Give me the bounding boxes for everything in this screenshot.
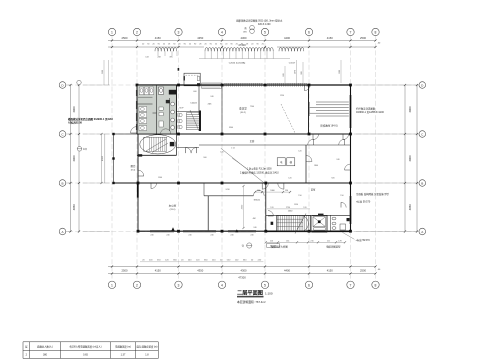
svg-text:4850: 4850 xyxy=(72,204,76,210)
right note 2 xyxy=(356,192,389,203)
svg-text:2500: 2500 xyxy=(122,268,128,272)
svg-text:150: 150 xyxy=(298,195,301,197)
svg-text:(28.0): (28.0) xyxy=(170,209,176,211)
svg-text:20: 20 xyxy=(152,43,154,45)
svg-text:1550: 1550 xyxy=(294,204,298,206)
svg-text:150: 150 xyxy=(340,195,343,197)
svg-text:1800: 1800 xyxy=(314,165,318,167)
svg-text:4: 4 xyxy=(221,283,223,287)
shaft blob xyxy=(271,222,274,225)
svg-text:2410: 2410 xyxy=(225,189,229,191)
svg-text:1: 1 xyxy=(111,31,113,35)
svg-text:4900: 4900 xyxy=(408,106,412,112)
bottom dimension texts xyxy=(122,235,381,280)
west door xyxy=(131,127,138,134)
topleft sub dim xyxy=(102,60,109,85)
svg-text:600: 600 xyxy=(283,73,285,76)
svg-text:90: 90 xyxy=(241,43,243,45)
svg-text:2: 2 xyxy=(136,283,138,287)
svg-text:28: 28 xyxy=(168,43,170,45)
svg-text:240: 240 xyxy=(210,96,213,98)
svg-text:4850: 4850 xyxy=(408,204,412,210)
svg-text:空调板 结构降板 详见结施 평면: 空调板 结构降板 详见结施 평면 xyxy=(356,192,389,196)
top dimension texts xyxy=(122,36,381,47)
svg-text:20: 20 xyxy=(262,43,264,45)
top wall window hatch xyxy=(202,83,308,88)
svg-text:20: 20 xyxy=(225,43,227,45)
svg-text:240: 240 xyxy=(210,235,213,237)
middle notes xyxy=(240,167,279,175)
svg-text:90: 90 xyxy=(220,43,222,45)
grid bubbles left xyxy=(59,82,66,235)
svg-text:59.520: 59.520 xyxy=(270,245,277,247)
svg-text:240: 240 xyxy=(253,227,256,229)
svg-text:240: 240 xyxy=(188,235,191,237)
double door mid room xyxy=(253,190,264,195)
svg-text:7: 7 xyxy=(350,283,352,287)
svg-text:1:100: 1:100 xyxy=(265,292,273,296)
svg-text:4150: 4150 xyxy=(155,36,161,40)
svg-text:451: 451 xyxy=(286,240,289,242)
svg-text:6: 6 xyxy=(308,31,310,35)
svg-text:栏杆做法详见图集: 栏杆做法详见图集 xyxy=(356,107,376,111)
svg-text:900: 900 xyxy=(203,157,206,159)
svg-text:90: 90 xyxy=(230,43,232,45)
svg-text:20: 20 xyxy=(251,43,253,45)
svg-text:240: 240 xyxy=(336,159,339,161)
toilet double door xyxy=(161,129,171,134)
svg-text:1.37: 1.37 xyxy=(121,354,126,357)
svg-text:20: 20 xyxy=(142,43,144,45)
top callout xyxy=(236,19,283,34)
grid axis lines xyxy=(68,36,418,281)
interior horizontal walls xyxy=(114,134,351,215)
svg-text:1: 1 xyxy=(111,283,113,287)
door swings xyxy=(138,85,351,216)
svg-text:90: 90 xyxy=(147,43,149,45)
svg-text:2500: 2500 xyxy=(102,70,104,74)
svg-text:90: 90 xyxy=(194,43,196,45)
protruding room top xyxy=(178,68,201,86)
svg-text:4M: 4M xyxy=(253,218,256,220)
room labels xyxy=(130,103,337,213)
svg-text:8: 8 xyxy=(375,31,377,35)
svg-text:C1517: C1517 xyxy=(289,63,296,65)
svg-text:20: 20 xyxy=(204,43,206,45)
right note 1 xyxy=(356,107,384,115)
svg-text:240: 240 xyxy=(250,235,253,237)
upper sub dim columns xyxy=(294,60,341,83)
svg-text:5: 5 xyxy=(264,31,266,35)
exterior walls xyxy=(137,85,351,232)
columns xyxy=(136,84,352,233)
scattered tiny dims xyxy=(158,91,344,229)
sub-axis bubble xyxy=(77,80,81,84)
svg-text:4900: 4900 xyxy=(72,155,76,161)
svg-text:B: B xyxy=(421,181,423,185)
svg-text:1500: 1500 xyxy=(158,177,162,179)
svg-text:90: 90 xyxy=(184,43,186,45)
svg-text:2500: 2500 xyxy=(122,36,128,40)
toilet block xyxy=(137,85,177,134)
svg-text:900: 900 xyxy=(301,71,303,74)
svg-text:7200: 7200 xyxy=(250,106,254,108)
svg-text:120: 120 xyxy=(288,178,291,180)
lobby sub dims xyxy=(220,148,310,220)
svg-text:C2024 (C2024A): C2024 (C2024A) xyxy=(229,62,246,65)
svg-text:150: 150 xyxy=(285,190,288,192)
svg-text:会议室: 会议室 xyxy=(239,107,247,111)
svg-text:4400: 4400 xyxy=(284,268,290,272)
main stair xyxy=(277,214,310,234)
svg-text:4350: 4350 xyxy=(197,268,203,272)
sub dim row xyxy=(254,190,291,193)
side dimension texts xyxy=(72,106,412,210)
svg-text:(56.2): (56.2) xyxy=(240,112,246,114)
door mid wall xyxy=(306,156,312,162)
svg-text:2: 2 xyxy=(136,31,138,35)
middle band boxes xyxy=(221,148,295,183)
svg-text:+标高 59.570: +标高 59.570 xyxy=(356,200,371,204)
svg-text:150: 150 xyxy=(257,190,260,192)
svg-text:4150: 4150 xyxy=(327,36,333,40)
axis extension leaders xyxy=(66,85,419,232)
svg-text:4900: 4900 xyxy=(408,155,412,161)
section arrows xyxy=(171,227,238,232)
svg-text:20: 20 xyxy=(189,43,191,45)
svg-text:216: 216 xyxy=(270,240,273,242)
svg-text:3: 3 xyxy=(178,31,180,35)
left detail callout xyxy=(77,147,87,152)
svg-text:4900: 4900 xyxy=(102,155,104,161)
svg-text:4400: 4400 xyxy=(284,36,290,40)
svg-text:1250: 1250 xyxy=(280,95,284,97)
svg-text:240: 240 xyxy=(230,235,233,237)
svg-text:20: 20 xyxy=(215,43,217,45)
svg-text:1380: 1380 xyxy=(339,70,341,74)
projection screen dashes xyxy=(281,104,295,133)
svg-text:2070: 2070 xyxy=(294,70,296,74)
svg-text:露台: 露台 xyxy=(130,164,136,168)
svg-text:阶梯教室 (84.6): 阶梯教室 (84.6) xyxy=(320,124,337,128)
svg-text:90: 90 xyxy=(158,43,160,45)
svg-text:本层建筑面积: 767.4m²: 本层建筑面积: 767.4m² xyxy=(237,300,266,304)
svg-text:03J930-1 页12/B6 h=1100: 03J930-1 页12/B6 h=1100 xyxy=(356,110,384,114)
svg-text:211: 211 xyxy=(327,240,330,242)
svg-text:2500: 2500 xyxy=(360,36,366,40)
svg-text:600: 600 xyxy=(193,91,196,93)
evacuation table xyxy=(23,342,158,359)
svg-text:380: 380 xyxy=(43,354,48,357)
entry stair treads xyxy=(177,110,201,131)
svg-text:雨篷顶做法详见图集 05J1-页6, 3mm 厚防水: 雨篷顶做法详见图集 05J1-页6, 3mm 厚防水 xyxy=(236,19,283,23)
toilet extra fixtures xyxy=(159,107,163,127)
svg-text:47300: 47300 xyxy=(238,275,246,279)
svg-text:4900: 4900 xyxy=(72,106,76,112)
svg-text:216: 216 xyxy=(310,240,313,242)
grid bubbles right xyxy=(419,82,426,235)
washbasins entry xyxy=(178,108,185,129)
svg-text:90: 90 xyxy=(173,43,175,45)
svg-text:28: 28 xyxy=(246,43,248,45)
svg-text:1800: 1800 xyxy=(270,190,274,192)
svg-text:6: 6 xyxy=(308,283,310,287)
svg-text:20: 20 xyxy=(163,43,165,45)
svg-text:7: 7 xyxy=(350,31,352,35)
grid bubbles bottom 1-8 xyxy=(108,281,379,288)
svg-text:F20-5 4 200: F20-5 4 200 xyxy=(258,24,271,26)
svg-text:120: 120 xyxy=(220,152,223,154)
svg-text:3300: 3300 xyxy=(229,127,233,129)
entry double door xyxy=(186,148,197,154)
top tiny dim row xyxy=(142,43,264,45)
dimension chain lines xyxy=(69,39,418,274)
room sub dim xyxy=(241,185,244,229)
left wall windows xyxy=(136,90,138,130)
svg-text:178: 178 xyxy=(338,240,341,242)
svg-text:办公室: 办公室 xyxy=(169,204,177,208)
lecture room seat rows xyxy=(310,102,349,116)
elevator xyxy=(312,214,327,233)
svg-text:120: 120 xyxy=(298,151,301,153)
left note text xyxy=(68,117,113,125)
svg-text:8: 8 xyxy=(375,283,377,287)
svg-text:二层平面图: 二层平面图 xyxy=(237,289,263,297)
svg-text:2730: 2730 xyxy=(286,207,290,209)
detail mark below plan xyxy=(242,243,280,248)
svg-text:240: 240 xyxy=(150,235,153,237)
right wall windows xyxy=(350,95,352,224)
svg-text:(8.4): (8.4) xyxy=(131,170,136,172)
oval stair xyxy=(140,135,176,154)
svg-text:20: 20 xyxy=(236,43,238,45)
interior vertical walls xyxy=(153,85,328,231)
svg-text:920: 920 xyxy=(331,178,334,180)
title block xyxy=(237,289,273,304)
svg-text:C2024: C2024 xyxy=(190,103,197,105)
top comb band xyxy=(155,48,304,59)
svg-text:A2标高52.08: A2标高52.08 xyxy=(68,121,82,125)
svg-text:1:12: 1:12 xyxy=(231,148,235,150)
leader note bottom right xyxy=(342,232,370,242)
svg-text:M1521: M1521 xyxy=(254,199,261,201)
svg-text:28: 28 xyxy=(199,43,201,45)
svg-text:楼面做法详见西立面图 03J930-1 页4/A8: 楼面做法详见西立面图 03J930-1 页4/A8 xyxy=(68,117,113,121)
svg-text:20: 20 xyxy=(178,43,180,45)
svg-text:120: 120 xyxy=(303,207,306,209)
svg-text:0.65: 0.65 xyxy=(83,354,88,357)
svg-text:5: 5 xyxy=(264,283,266,287)
svg-text:B: B xyxy=(61,181,63,185)
west wing room xyxy=(112,133,138,184)
top window labels xyxy=(145,56,296,64)
svg-text:4300: 4300 xyxy=(241,268,247,272)
svg-text:4350: 4350 xyxy=(197,36,203,40)
svg-text:90: 90 xyxy=(210,43,212,45)
svg-text:2500: 2500 xyxy=(360,268,366,272)
svg-text:3: 3 xyxy=(178,283,180,287)
svg-text:4: 4 xyxy=(221,31,223,35)
grid bubbles top 1-8 xyxy=(108,28,379,35)
wc room bottom right xyxy=(331,215,350,231)
svg-text:120: 120 xyxy=(270,207,273,209)
svg-text:4150: 4150 xyxy=(327,268,333,272)
left sub dimension xyxy=(100,133,104,184)
svg-text:+标高 59.570: +标高 59.570 xyxy=(356,238,371,242)
bottom windows xyxy=(150,230,256,232)
svg-text:240: 240 xyxy=(166,235,169,237)
svg-text:电梯详图选型: 电梯详图选型 xyxy=(326,245,341,249)
upper sub dims 2 xyxy=(283,62,303,83)
svg-text:4150: 4150 xyxy=(155,268,161,272)
svg-text:4300: 4300 xyxy=(241,36,247,40)
svg-text:90: 90 xyxy=(256,43,258,45)
stair block sub dims xyxy=(265,240,346,248)
